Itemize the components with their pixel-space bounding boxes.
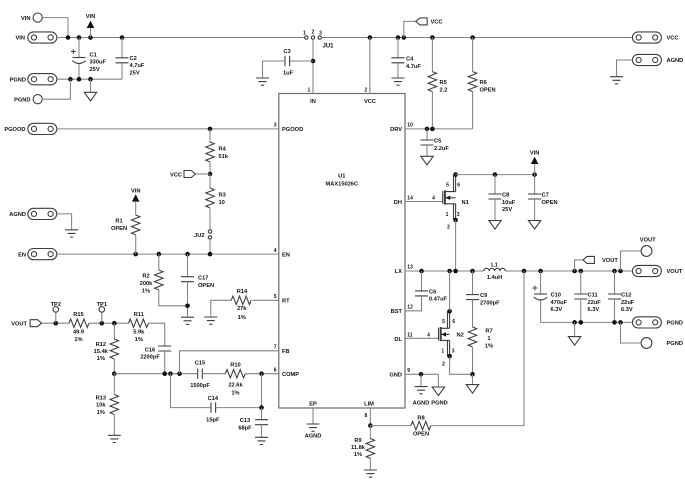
- svg-text:EN: EN: [18, 252, 26, 258]
- svg-text:5: 5: [442, 319, 445, 325]
- wire R6 top lead: [472, 38, 474, 72]
- svg-text:DRV: DRV: [390, 127, 402, 133]
- wire C7 top lead: [534, 175, 536, 194]
- junction VCC R3 R4: [208, 172, 213, 177]
- svg-text:5: 5: [446, 182, 449, 188]
- svg-text:14: 14: [407, 195, 413, 201]
- ground R13: [108, 435, 121, 442]
- wire C5 top lead: [426, 129, 428, 140]
- wire C10 bottom lead: [540, 301, 542, 323]
- wire C3 ground drop: [262, 61, 264, 78]
- svg-text:R10: R10: [230, 362, 240, 368]
- wire N2 drain to LX: [449, 271, 451, 311]
- wire TP2 stem: [55, 312, 57, 323]
- resistor R8: [411, 421, 431, 429]
- junction FB riser: [177, 371, 182, 376]
- ground PGND pin9: [432, 387, 444, 396]
- svg-text:PGND: PGND: [667, 321, 683, 327]
- svg-text:3: 3: [274, 123, 277, 129]
- label C8 value: [502, 192, 516, 213]
- svg-text:7: 7: [274, 345, 277, 351]
- jumper JU1 pin 1: [305, 36, 308, 39]
- connector VOUT test point: [641, 246, 652, 257]
- junction VCC tag: [402, 35, 407, 40]
- svg-text:R15: R15: [73, 312, 83, 318]
- junction FB node left: [112, 371, 117, 376]
- svg-text:1%: 1%: [231, 390, 239, 396]
- junction VIN rail a: [66, 35, 71, 40]
- jumper JU2 pin bottom: [208, 236, 211, 239]
- wire AGND pad right lead: [617, 60, 633, 77]
- ground N2 R7: [466, 385, 478, 394]
- svg-text:6.3V: 6.3V: [551, 307, 563, 313]
- wire VCC tag riser: [404, 21, 416, 37]
- label C6 value: [429, 289, 448, 302]
- wire R11 to C16: [149, 323, 165, 346]
- svg-text:R7: R7: [485, 329, 492, 335]
- svg-text:COMP: COMP: [282, 372, 299, 378]
- wire C17 bottom lead: [187, 282, 189, 318]
- wire C13 top lead: [261, 408, 263, 420]
- wire DH row: [405, 201, 443, 203]
- svg-text:3: 3: [452, 349, 455, 355]
- svg-text:TP1: TP1: [97, 302, 107, 308]
- resistor R2: [155, 270, 163, 290]
- label R2 value: [140, 274, 153, 295]
- wire C14 branch left: [171, 374, 212, 408]
- power flag VIN N1: [531, 157, 539, 164]
- svg-text:0.47uF: 0.47uF: [429, 297, 448, 303]
- svg-text:13: 13: [407, 265, 413, 271]
- svg-text:C5: C5: [434, 138, 441, 144]
- svg-text:1%: 1%: [142, 288, 150, 294]
- svg-text:VCC: VCC: [667, 36, 679, 42]
- label R11 value: [133, 329, 145, 343]
- svg-text:R14: R14: [237, 289, 248, 295]
- svg-text:2200pF: 2200pF: [140, 355, 160, 361]
- wire PGND row: [57, 78, 122, 80]
- wire C14 branch right: [216, 374, 262, 408]
- svg-text:C6: C6: [429, 289, 436, 295]
- label R14 value: [237, 306, 247, 321]
- power tag VOUT left: [30, 320, 41, 327]
- inductor L1: [484, 268, 506, 271]
- wire R1 top lead: [135, 201, 137, 215]
- power tag VCC top: [416, 18, 427, 25]
- label C5 value: [434, 138, 449, 151]
- junction LX N2: [447, 269, 452, 274]
- wire R2 top lead: [158, 254, 160, 270]
- wire PGND rail triangle drop: [574, 322, 576, 336]
- wire R6 bottom lead: [472, 92, 474, 129]
- junction PGND rail circle: [618, 320, 623, 325]
- ground output PGND: [568, 337, 580, 346]
- label R3 value: [219, 193, 226, 206]
- capacitor C11: [574, 294, 587, 299]
- svg-text:4: 4: [427, 332, 430, 338]
- junction DRV R5: [430, 127, 435, 132]
- capacitor C9: [466, 295, 479, 300]
- svg-text:VIN: VIN: [16, 36, 25, 42]
- connector PGND pad right: [632, 317, 661, 328]
- resistor R11: [129, 319, 149, 327]
- wire R3 to JU2: [209, 208, 211, 230]
- svg-text:EP: EP: [309, 402, 317, 408]
- junction N2 drain: [447, 309, 452, 314]
- junction PGND row gnd: [88, 77, 93, 82]
- wire C17 top lead: [187, 254, 189, 277]
- junction VIN rail C1: [77, 35, 82, 40]
- ground R9: [364, 470, 377, 477]
- resistor R9: [366, 439, 374, 459]
- junction N1 source: [453, 218, 458, 223]
- junction LX C9: [470, 269, 475, 274]
- svg-text:10uF: 10uF: [502, 200, 516, 206]
- junction VOUT C12: [612, 269, 617, 274]
- junction C16 FB: [162, 371, 167, 376]
- svg-text:2.2uF: 2.2uF: [434, 146, 449, 152]
- wire PGND circle lead: [621, 322, 642, 343]
- label R13 value: [96, 395, 107, 416]
- svg-text:LX: LX: [395, 269, 402, 275]
- svg-text:AGND: AGND: [413, 400, 430, 406]
- ground R14: [204, 317, 217, 324]
- svg-text:JU1: JU1: [323, 44, 335, 50]
- label C10 value: [551, 292, 568, 313]
- wire R5 bottom lead: [431, 92, 433, 129]
- ground C3: [256, 78, 269, 85]
- junction PGOOD R4: [208, 127, 213, 132]
- wire LIM stub: [369, 408, 371, 426]
- wire TP1 stem: [101, 312, 103, 323]
- wire VIN testpoint to rail: [42, 18, 68, 38]
- svg-text:PGND: PGND: [14, 97, 30, 103]
- junction PGND rail C12: [612, 320, 617, 325]
- test point TP1: [99, 307, 105, 313]
- svg-text:4: 4: [274, 248, 277, 254]
- junction R2 C17: [185, 304, 190, 309]
- svg-text:VOUT: VOUT: [667, 269, 683, 275]
- capacitor C12: [608, 294, 621, 299]
- svg-text:U1: U1: [338, 174, 345, 180]
- capacitor C3: [285, 56, 290, 66]
- svg-text:R13: R13: [96, 395, 106, 401]
- jumper JU1 pin 3: [318, 36, 321, 39]
- svg-text:6: 6: [274, 367, 277, 373]
- svg-text:JU2: JU2: [194, 233, 204, 239]
- wire DL row: [405, 337, 439, 339]
- svg-text:C12: C12: [621, 292, 631, 298]
- junction LX R8 riser: [522, 269, 527, 274]
- label C11 value: [588, 292, 602, 313]
- svg-text:27k: 27k: [237, 306, 247, 312]
- op-amp U1 MAX15026C box: [279, 94, 405, 409]
- connector PGND test point right: [641, 338, 652, 349]
- svg-text:22uF: 22uF: [588, 300, 602, 306]
- wire C1 bottom lead: [78, 64, 80, 79]
- svg-text:R1: R1: [115, 219, 122, 225]
- capacitor C17: [181, 277, 194, 282]
- svg-text:VIN: VIN: [131, 188, 140, 194]
- wire FB node row: [114, 373, 197, 375]
- ground AGND left: [65, 230, 78, 237]
- svg-text:10k: 10k: [96, 403, 106, 409]
- svg-text:1: 1: [303, 31, 306, 37]
- svg-text:4: 4: [432, 196, 435, 202]
- junction VCC C4: [396, 35, 401, 40]
- junction EN R2: [157, 252, 162, 257]
- svg-text:C16: C16: [145, 347, 155, 353]
- junction PGND rail C11: [579, 320, 584, 325]
- svg-text:C9: C9: [480, 293, 487, 299]
- junction VCC pin2: [368, 35, 373, 40]
- wire R8 to LX riser: [431, 271, 524, 426]
- label R7 value: [485, 329, 493, 350]
- label C7 value: [542, 192, 558, 205]
- svg-text:R2: R2: [142, 274, 149, 280]
- svg-text:C3: C3: [283, 49, 290, 55]
- wire AGND drop: [420, 374, 422, 386]
- junction DRV C5: [425, 127, 430, 132]
- svg-text:VOUT: VOUT: [602, 258, 618, 264]
- svg-text:12: 12: [407, 305, 413, 311]
- svg-text:C14: C14: [208, 396, 219, 402]
- label C2 value: [130, 56, 145, 77]
- wire JU1 pin2 to IN: [312, 39, 314, 93]
- wire VCC rail: [322, 37, 633, 39]
- svg-text:DH: DH: [394, 200, 402, 206]
- junction C3 node: [311, 59, 316, 64]
- junction C8 top: [493, 172, 498, 177]
- junction VOUT tag riser: [572, 269, 577, 274]
- wire R4 top lead: [209, 129, 211, 142]
- svg-text:1%: 1%: [135, 337, 143, 343]
- label C9 value: [480, 293, 500, 306]
- resistor R13: [110, 395, 118, 415]
- svg-text:470uF: 470uF: [551, 300, 568, 306]
- svg-text:3: 3: [319, 31, 322, 37]
- svg-text:6: 6: [457, 182, 460, 188]
- junction VOUT C11: [579, 269, 584, 274]
- svg-text:PGND: PGND: [667, 341, 683, 347]
- jumper JU2 pin top: [208, 230, 211, 233]
- svg-text:C4: C4: [406, 56, 414, 62]
- wire DRV row: [405, 128, 473, 130]
- svg-text:25V: 25V: [130, 71, 140, 77]
- wire RT pin lead: [252, 299, 279, 301]
- svg-text:PGND: PGND: [10, 77, 26, 83]
- capacitor C14: [211, 402, 216, 412]
- svg-text:22.6k: 22.6k: [228, 383, 243, 389]
- resistor R15: [69, 319, 89, 327]
- wire VOUT to R15: [42, 322, 70, 324]
- wire pin2 VCC lead: [369, 38, 371, 94]
- connector VCC pad right: [632, 32, 661, 43]
- label R10 value: [228, 383, 243, 397]
- junction COMP C14: [259, 371, 264, 376]
- svg-text:4.7uF: 4.7uF: [406, 64, 421, 70]
- svg-text:R12: R12: [96, 342, 106, 348]
- resistor R4: [206, 142, 214, 162]
- label U1: [326, 174, 359, 188]
- svg-text:2: 2: [442, 361, 445, 367]
- power tag VOUT right: [583, 256, 594, 263]
- svg-text:1: 1: [487, 336, 490, 342]
- svg-text:1: 1: [446, 212, 449, 218]
- wire R9 top lead: [369, 426, 371, 439]
- label C12 value: [621, 292, 635, 313]
- wire EN row: [57, 253, 279, 255]
- wire C9 to R7: [472, 300, 474, 327]
- wire R10 to COMP: [245, 373, 278, 375]
- resistor R5: [428, 72, 436, 92]
- junction LX C10: [538, 269, 543, 274]
- svg-text:5: 5: [274, 294, 277, 300]
- power tag VCC mid: [184, 171, 195, 178]
- wire C15 to R10: [202, 373, 225, 375]
- svg-text:22uF: 22uF: [621, 300, 635, 306]
- wire R7 ground drop: [472, 374, 474, 384]
- svg-text:LIM: LIM: [364, 402, 374, 408]
- wire C1 top lead: [78, 38, 80, 58]
- svg-text:DL: DL: [394, 337, 402, 343]
- svg-text:2700pF: 2700pF: [480, 300, 500, 306]
- svg-text:2: 2: [312, 30, 315, 36]
- svg-text:51k: 51k: [219, 154, 229, 160]
- junction VOUT circle riser: [618, 269, 623, 274]
- wire C10 top lead: [540, 271, 542, 294]
- wire C11 top lead: [580, 271, 582, 294]
- wire LX to output: [505, 270, 632, 272]
- svg-text:10: 10: [407, 123, 413, 129]
- connector VOUT pad: [632, 265, 661, 276]
- wire VIN arrow stem: [90, 28, 92, 38]
- resistor R3: [206, 188, 214, 208]
- wire R12 top lead: [113, 323, 115, 339]
- svg-text:R5: R5: [440, 80, 447, 86]
- resistor R12: [110, 339, 118, 359]
- resistor R6: [468, 72, 476, 92]
- junction EN R1: [133, 252, 138, 257]
- wire VCC tag lead: [195, 173, 210, 175]
- ground C13: [255, 437, 268, 444]
- capacitor C10: [532, 286, 547, 301]
- ground C7: [528, 221, 540, 230]
- svg-text:N2: N2: [457, 332, 464, 338]
- svg-text:VOUT: VOUT: [640, 237, 656, 243]
- ground EP: [307, 424, 320, 431]
- connector AGND pad left: [28, 208, 57, 219]
- wire N1 drain rail: [456, 174, 535, 176]
- svg-text:PGND: PGND: [431, 400, 447, 406]
- wire C3 left lead: [263, 60, 286, 62]
- svg-text:11: 11: [407, 332, 413, 338]
- junction PGND rail gnd: [572, 320, 577, 325]
- junction TP1: [100, 321, 105, 326]
- junction divider node: [112, 321, 117, 326]
- test point TP2: [53, 307, 59, 313]
- svg-text:OPEN: OPEN: [198, 283, 214, 289]
- svg-text:4.7uF: 4.7uF: [130, 63, 145, 69]
- label R5 value: [440, 80, 448, 93]
- capacitor C2: [116, 58, 129, 63]
- label R1 value: [111, 219, 127, 232]
- wire R13 bottom lead: [113, 415, 115, 436]
- label R12 value: [94, 342, 109, 362]
- wire C12 top lead: [614, 271, 616, 294]
- junction C7 top: [532, 172, 537, 177]
- wire R3 top lead: [209, 174, 211, 188]
- svg-text:R11: R11: [134, 312, 144, 318]
- svg-text:N1: N1: [462, 200, 469, 206]
- label C16 value: [140, 347, 160, 360]
- svg-text:8: 8: [365, 413, 368, 419]
- wire R14 to ground: [211, 300, 231, 317]
- junction VIN rail C2: [120, 35, 125, 40]
- jumper JU1 pin 2: [311, 36, 314, 39]
- svg-text:1%: 1%: [238, 315, 246, 321]
- svg-text:68pF: 68pF: [238, 426, 252, 432]
- junction LX C6: [419, 269, 424, 274]
- label R6 value: [480, 80, 496, 93]
- wire C11 bottom lead: [580, 299, 582, 322]
- label R15 value: [73, 329, 84, 343]
- label R4 value: [219, 147, 229, 160]
- junction VCC R6: [470, 35, 475, 40]
- svg-text:15pF: 15pF: [206, 418, 220, 424]
- svg-text:1: 1: [308, 87, 311, 93]
- wire C5 bottom lead: [426, 145, 428, 156]
- svg-text:PGOOD: PGOOD: [282, 127, 303, 133]
- svg-text:25V: 25V: [502, 207, 512, 213]
- wire R4 bottom lead: [209, 162, 211, 174]
- svg-text:C7: C7: [542, 192, 549, 198]
- ground C5: [421, 156, 433, 165]
- svg-text:1: 1: [441, 349, 444, 355]
- connector PGOOD pad: [28, 123, 57, 134]
- connector EN pad: [28, 249, 57, 260]
- label C4 value: [406, 56, 421, 69]
- power flag VIN top: [87, 21, 95, 28]
- wire R7 bottom lead: [472, 347, 474, 374]
- svg-text:R3: R3: [219, 193, 226, 199]
- svg-text:R8: R8: [417, 416, 424, 422]
- label C13 value: [238, 418, 252, 432]
- junction VCC R5: [430, 35, 435, 40]
- wire R2 bottom lead: [159, 290, 188, 306]
- svg-text:VIN: VIN: [530, 150, 539, 156]
- junction GND AGND: [419, 372, 424, 377]
- svg-text:1%: 1%: [354, 452, 362, 458]
- svg-text:1%: 1%: [97, 356, 105, 362]
- capacitor C4: [392, 58, 405, 63]
- wire C8 bottom lead: [494, 199, 496, 221]
- ground C8: [489, 221, 501, 230]
- junction LX N1: [453, 269, 458, 274]
- svg-text:EN: EN: [282, 252, 290, 258]
- wire R12 bottom lead: [113, 359, 115, 374]
- wire C4 top lead: [397, 38, 399, 58]
- svg-text:6.3V: 6.3V: [621, 307, 633, 313]
- svg-text:FB: FB: [282, 349, 290, 355]
- svg-text:330uF: 330uF: [90, 60, 107, 66]
- svg-text:49.9: 49.9: [73, 329, 84, 335]
- capacitor C13: [255, 420, 268, 425]
- wire VOUT tag riser: [575, 260, 583, 271]
- svg-text:1%: 1%: [74, 337, 82, 343]
- svg-text:IN: IN: [310, 99, 316, 105]
- svg-text:AGND: AGND: [305, 433, 322, 439]
